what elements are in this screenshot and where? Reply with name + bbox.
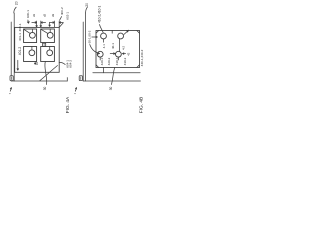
svg-text:401-2: 401-2: [18, 47, 22, 56]
svg-text:d2: d2: [42, 14, 46, 18]
svg-text:20: 20: [85, 3, 89, 7]
svg-text:20: 20: [15, 1, 19, 5]
svg-text:420-2: 420-2: [107, 57, 111, 65]
svg-text:FIG. 4B: FIG. 4B: [139, 97, 145, 114]
svg-text:440-1,440-2: 440-1,440-2: [140, 49, 144, 66]
svg-text:4-1: 4-1: [102, 44, 106, 48]
svg-text:FIG. 4A: FIG. 4A: [65, 96, 71, 113]
svg-text:d1: d1: [32, 14, 36, 18]
svg-text:60-1,60-2: 60-1,60-2: [88, 30, 92, 43]
svg-text:4-2: 4-2: [121, 46, 125, 50]
svg-text:410-2,410-1: 410-2,410-1: [97, 5, 101, 22]
svg-text:30: 30: [43, 87, 47, 91]
svg-text:430-2: 430-2: [123, 57, 127, 65]
svg-text:420-1: 420-1: [100, 57, 104, 65]
svg-text:40-1: 40-1: [111, 43, 115, 49]
svg-text:400-1: 400-1: [18, 23, 22, 31]
svg-text:10: 10: [35, 62, 39, 66]
svg-text:430-1: 430-1: [115, 57, 119, 65]
svg-text:401-1: 401-1: [18, 33, 22, 41]
svg-text:42: 42: [127, 52, 131, 56]
svg-text:602-1: 602-1: [66, 12, 70, 20]
svg-text:d3: d3: [51, 14, 55, 18]
svg-text:600-1: 600-1: [26, 10, 30, 18]
svg-text:400-2: 400-2: [60, 7, 64, 15]
svg-text:30: 30: [109, 87, 113, 91]
svg-text:604-2: 604-2: [69, 60, 73, 68]
